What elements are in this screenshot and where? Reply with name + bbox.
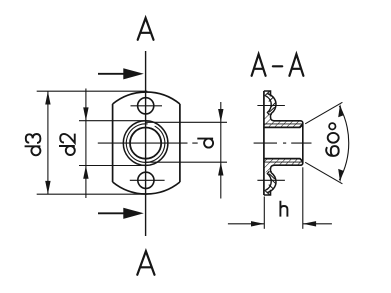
section: bore line bottom — [264, 159, 303, 162]
60 degree line bottom — [305, 162, 342, 184]
section: fillet flange to boss bottom — [271, 165, 275, 169]
label h — [280, 201, 287, 217]
section: hatch boss bottom band — [264, 159, 302, 172]
section: top collar hatch — [269, 97, 276, 113]
label A-A — [252, 54, 304, 76]
section: flange top face — [264, 91, 271, 96]
dimension d3 extension bottom — [37, 193, 148, 195]
top hole — [138, 98, 154, 114]
section: bottom hole axis — [257, 179, 285, 181]
dimension d extension top — [146, 121, 227, 123]
60 degree line top — [305, 102, 342, 124]
dimension d2 extension top — [79, 120, 144, 122]
dimension d3 line — [45, 91, 50, 194]
top hole crosshair — [131, 105, 163, 107]
section arrow bottom — [98, 208, 144, 219]
section: top hole axis — [257, 105, 285, 107]
label d2 — [59, 134, 75, 155]
dimension h extension left — [263, 197, 265, 229]
thread major arc (3/4) — [126, 124, 165, 163]
section: bottom collar inner — [265, 171, 271, 190]
section: main centerline — [254, 142, 312, 144]
dimension d3 extension top — [37, 90, 148, 92]
boss outer circle — [123, 121, 168, 166]
flange outline (front view) — [113, 92, 180, 194]
section: thread line bottom — [264, 161, 302, 163]
label 60deg — [326, 123, 339, 156]
section arrow top — [98, 68, 144, 79]
section: thread line top — [264, 123, 302, 125]
bore circle (thread minor) — [130, 128, 161, 159]
section: flange right face bottom — [270, 169, 272, 172]
label d — [197, 139, 213, 148]
dimension h line — [228, 221, 332, 226]
label A top — [138, 18, 154, 40]
section: top collar outer — [268, 94, 277, 116]
section: bottom collar hatch — [269, 174, 276, 190]
bottom hole — [138, 172, 154, 188]
angle dimension arc — [339, 106, 348, 180]
section: flange bottom face — [264, 190, 271, 195]
dimension d line — [218, 102, 223, 199]
section: bottom collar outer — [268, 171, 277, 193]
section line A-A (vertical centerline of left view) — [145, 51, 147, 236]
label d3 — [25, 134, 41, 155]
bottom hole crosshair — [130, 179, 165, 181]
section: top collar inner — [265, 96, 271, 115]
section: boss outline — [274, 121, 303, 165]
dimension d2 extension bottom — [79, 165, 144, 167]
section: flange left face — [263, 91, 265, 195]
dimension h extension right — [302, 167, 304, 229]
angle arc arrow bottom — [338, 169, 343, 182]
horizontal centerline left view — [98, 142, 198, 144]
section: hatch boss top band — [264, 114, 302, 128]
section: flange right face top — [270, 114, 272, 117]
dimension d2 line — [83, 89, 88, 199]
section: bore line top — [264, 125, 303, 128]
dimension d extension bottom — [146, 161, 227, 163]
label A bottom — [137, 251, 154, 275]
section: fillet flange to boss top — [271, 117, 275, 121]
section: hatch flange top strip — [265, 91, 270, 96]
angle arc arrow top — [338, 104, 343, 117]
section: hatch flange bottom strip — [265, 190, 270, 195]
